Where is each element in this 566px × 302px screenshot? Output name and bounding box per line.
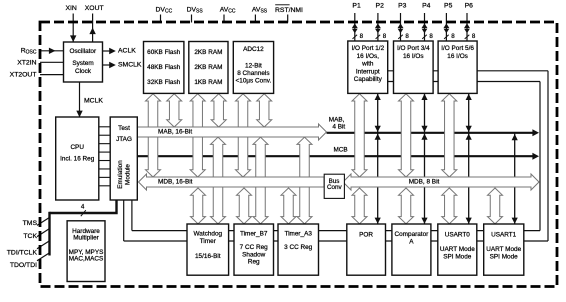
clock MCLK arrow from oscillator to CPU [79, 82, 81, 117]
svg-text:Shadow: Shadow [242, 251, 265, 258]
block I/O Port 5/6 [438, 41, 477, 93]
bus MDB 8-bit band double arrow [343, 174, 539, 190]
pin P5 line with double arrow and width-8 slash [445, 13, 447, 41]
svg-text:CPU: CPU [70, 144, 84, 151]
svg-text:P4: P4 [422, 3, 431, 10]
pin XT2IN line [40, 61, 64, 63]
arrow MDB8 to USART1 [488, 188, 503, 224]
block Flash memory [144, 42, 184, 94]
svg-text:I/O Port 5/6: I/O Port 5/6 [441, 45, 474, 52]
svg-text:4: 4 [81, 203, 85, 210]
bus MAB 16-bit band with right arrow [138, 124, 327, 140]
tick TDO/TDI [37, 253, 50, 261]
pin tick AVCC [223, 15, 225, 23]
svg-text:I/O Port 3/4: I/O Port 3/4 [397, 45, 430, 52]
svg-text:XOUT: XOUT [85, 5, 104, 12]
wire port rail upper (ports to right side) [388, 70, 548, 72]
tick TMS [37, 217, 50, 225]
arrow Port1/2 to MDB8 [352, 94, 367, 177]
svg-text:XIN: XIN [66, 5, 77, 12]
svg-text:XT2OUT: XT2OUT [10, 71, 37, 78]
svg-text:8: 8 [451, 33, 455, 40]
svg-text:Incl. 16 Reg: Incl. 16 Reg [60, 155, 95, 162]
arrow MDB8 to POR [352, 188, 367, 224]
block Bus Converter [324, 174, 344, 198]
svg-text:SPI Mode: SPI Mode [490, 253, 519, 260]
svg-text:DVCC: DVCC [156, 7, 173, 15]
wire bottom rail lower [124, 240, 548, 242]
svg-text:Comparator: Comparator [395, 231, 430, 238]
bus MAB 4-bit thick line with arrow [327, 132, 534, 134]
svg-text:USART0: USART0 [445, 231, 471, 238]
bus MCB thick line with arrow [138, 155, 534, 157]
pin XOUT line with arrow up [92, 14, 94, 43]
wire CPU to Test/JTAG interconnect lines [99, 126, 110, 128]
arrow MDB8 to USART0 [442, 188, 457, 224]
svg-text:Emulation: Emulation [117, 160, 124, 189]
svg-text:Conv: Conv [327, 184, 343, 191]
svg-text:Clock: Clock [75, 68, 92, 75]
svg-text:7 CC Reg: 7 CC Reg [240, 244, 269, 251]
bus width slash 4 [81, 210, 86, 216]
svg-text:TCK: TCK [23, 233, 37, 240]
arrow MDB8 to Comparator [399, 188, 414, 224]
svg-text:USART1: USART1 [491, 231, 517, 238]
svg-text:AVCC: AVCC [220, 7, 236, 15]
svg-text:1KB RAM: 1KB RAM [194, 79, 222, 86]
svg-text:8: 8 [429, 33, 433, 40]
svg-text:<10µs Conv.: <10µs Conv. [236, 77, 272, 84]
block CPU [56, 117, 99, 200]
svg-text:32KB Flash: 32KB Flash [147, 79, 180, 86]
svg-text:Timer_A3: Timer_A3 [284, 231, 312, 238]
block USART0 [438, 224, 477, 275]
arrow ADC12 to MDB [236, 94, 251, 177]
svg-text:8: 8 [472, 33, 476, 40]
svg-text:Watchdog: Watchdog [194, 231, 223, 238]
tick TDI/TCLK [37, 241, 50, 249]
block I/O Port 1/2 [348, 41, 388, 93]
svg-text:P3: P3 [398, 3, 407, 10]
arrow ADC12 to MAB [257, 94, 272, 127]
svg-text:8: 8 [405, 33, 409, 40]
pin P2 line with double arrow and width-8 slash [377, 13, 379, 41]
arrow Timer_A3 to MDB [281, 188, 296, 224]
svg-text:15/16-Bit: 15/16-Bit [195, 253, 221, 260]
pin tick DVCC [160, 15, 162, 23]
svg-text:MDB, 8 Bit: MDB, 8 Bit [409, 179, 440, 186]
svg-text:MCLK: MCLK [84, 97, 103, 104]
svg-text:System: System [72, 60, 93, 67]
svg-text:Timer: Timer [200, 238, 217, 245]
svg-text:P5: P5 [444, 3, 453, 10]
pin ROSC line with arrow into oscillator [40, 50, 64, 52]
svg-text:MAB, 16-Bit: MAB, 16-Bit [158, 129, 192, 136]
svg-text:UART Mode: UART Mode [440, 246, 475, 253]
svg-text:3 CC Reg: 3 CC Reg [284, 244, 313, 251]
svg-text:Module: Module [125, 164, 132, 185]
arrow RAM to MDB [190, 94, 205, 177]
block POR [347, 224, 386, 275]
tick TCK [37, 228, 50, 236]
svg-text:48KB Flash: 48KB Flash [147, 64, 180, 71]
block RAM [189, 42, 228, 94]
bus MDB 16-bit band with left arrow [139, 174, 325, 190]
wire bottom rail upper (threads through peripherals) [132, 230, 540, 232]
pin P6 line with double arrow and width-8 slash [466, 13, 468, 41]
svg-text:Capability: Capability [354, 76, 383, 83]
svg-text:Interrupt: Interrupt [356, 68, 380, 75]
svg-text:with: with [361, 61, 374, 68]
clock output SMCLK arrow [103, 64, 110, 66]
svg-text:AVSS: AVSS [252, 7, 268, 15]
pin tick DVSS [191, 15, 193, 23]
svg-text:MAC,MACS: MAC,MACS [69, 256, 103, 263]
svg-text:UART Mode: UART Mode [486, 246, 521, 253]
svg-text:SMCLK: SMCLK [118, 62, 142, 69]
svg-text:TMS: TMS [23, 220, 38, 227]
svg-text:Oscillator: Oscillator [69, 48, 97, 55]
svg-text:JTAG: JTAG [116, 136, 132, 143]
wire right inner vertical [539, 82, 541, 231]
clock output ACLK arrow [103, 50, 110, 52]
svg-text:MCB: MCB [333, 147, 347, 154]
block Timer_A3 [278, 224, 319, 275]
svg-text:4 Bit: 4 Bit [332, 123, 345, 130]
block I/O Port 3/4 [394, 41, 434, 93]
pin tick AVSS [254, 15, 256, 23]
JTAG 4-wire bus (thick) [50, 200, 117, 213]
pin P1 line with double arrow and width-8 slash [354, 13, 356, 41]
block Comparator A [392, 224, 431, 275]
pin P4 line with double arrow and width-8 slash [424, 13, 426, 41]
svg-text:P6: P6 [465, 3, 474, 10]
svg-text:TDI/TCLK: TDI/TCLK [7, 250, 38, 257]
svg-text:Timer_B7: Timer_B7 [240, 231, 268, 238]
svg-text:2KB RAM: 2KB RAM [194, 64, 222, 71]
block Oscillator / System Clock [64, 42, 103, 82]
svg-text:DVSS: DVSS [187, 7, 204, 15]
svg-text:MDB, 16-Bit: MDB, 16-Bit [158, 179, 193, 186]
arrow RAM to MAB [211, 94, 226, 127]
svg-text:ADC12: ADC12 [243, 46, 264, 53]
arrow Port5/6 to MDB8 [442, 94, 457, 177]
svg-text:RST/NMI: RST/NMI [275, 7, 303, 14]
pin XIN line with arrow into oscillator [72, 14, 74, 43]
arrow Timer_B7 to MAB (long) [253, 137, 268, 224]
pin P3 line with double arrow and width-8 slash [400, 13, 402, 41]
block Timer_B7 [234, 224, 274, 275]
svg-text:16 I/Os: 16 I/Os [403, 53, 424, 60]
svg-text:P2: P2 [376, 3, 385, 10]
svg-text:A: A [409, 238, 414, 245]
line MAB4 to USART0 (from Port5/6) [468, 93, 470, 223]
svg-text:ACLK: ACLK [118, 48, 136, 55]
arrow Timer_B7 to MDB [237, 188, 252, 224]
svg-text:POR: POR [359, 231, 373, 238]
svg-text:Test: Test [118, 125, 130, 132]
svg-text:XT2IN: XT2IN [17, 59, 36, 66]
line MAB4 to POR (from Port1/2) [377, 93, 379, 223]
block ADC12 [233, 42, 273, 94]
arrow Watchdog to MDB [191, 188, 206, 224]
arrow Flash to MDB [146, 94, 161, 177]
block Hardware Multiplier [67, 221, 105, 282]
arrow Flash to MAB [167, 94, 182, 127]
svg-text:ROSC: ROSC [21, 48, 37, 56]
line MAB4 to Comparator (from Port3/4) [424, 93, 426, 223]
block USART1 [484, 224, 524, 275]
wire right outer vertical [547, 71, 549, 241]
svg-text:16 I/Os: 16 I/Os [447, 53, 468, 60]
svg-text:8: 8 [360, 33, 364, 40]
svg-text:SPI Mode: SPI Mode [443, 253, 472, 260]
arrow Watchdog to MAB (long) [211, 137, 226, 224]
svg-text:Multiplier: Multiplier [73, 235, 99, 242]
svg-text:I/O Port 1/2: I/O Port 1/2 [351, 45, 384, 52]
svg-text:16 I/Os,: 16 I/Os, [357, 53, 380, 60]
svg-text:12-Bit: 12-Bit [245, 63, 262, 70]
arrow Timer_A3 to MAB (long) [297, 137, 312, 224]
svg-text:8 Channels: 8 Channels [237, 70, 269, 77]
wire port rail lower [388, 81, 540, 83]
wire JTAG drop line left [123, 200, 125, 241]
block Watchdog Timer [187, 224, 229, 275]
pin tick RST/NMI [287, 15, 289, 23]
block Test/JTAG with Emulation Module [110, 117, 137, 200]
svg-text:2KB RAM: 2KB RAM [194, 49, 222, 56]
pin XT2OUT line [40, 74, 64, 76]
svg-text:60KB Flash: 60KB Flash [147, 49, 180, 56]
svg-text:Reg: Reg [248, 259, 260, 266]
svg-text:TDO/TDI: TDO/TDI [10, 262, 37, 269]
svg-text:8: 8 [383, 33, 387, 40]
line MAB4 to USART1 [514, 134, 516, 224]
arrow Port3/4 to MDB8 [399, 94, 414, 177]
wire JTAG drop line right [131, 200, 133, 231]
svg-text:P1: P1 [352, 3, 361, 10]
